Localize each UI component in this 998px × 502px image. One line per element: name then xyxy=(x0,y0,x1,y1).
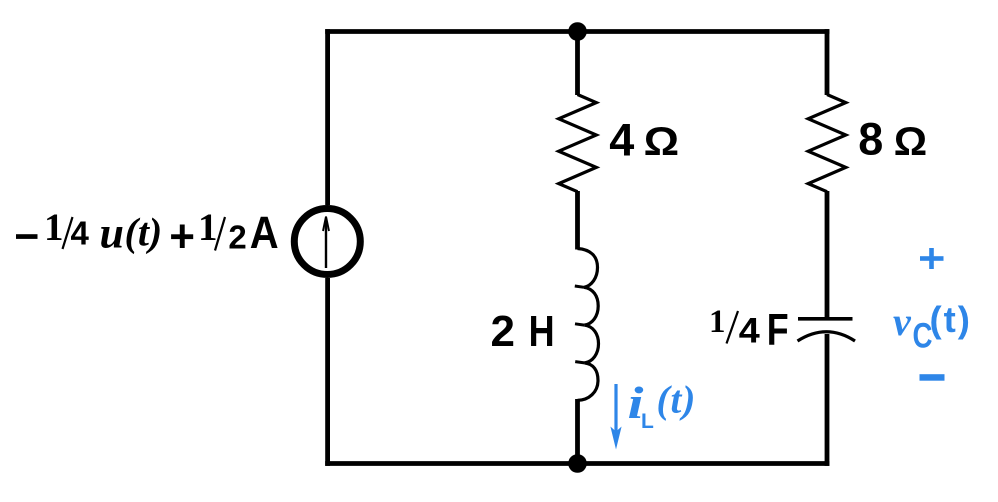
svg-text:(t): (t) xyxy=(125,210,163,255)
node bottom junction xyxy=(568,454,587,473)
svg-text:v: v xyxy=(893,299,912,344)
label voltage vC(t) minus sign xyxy=(920,374,945,381)
label voltage vC(t) text xyxy=(893,299,972,356)
svg-text:8: 8 xyxy=(858,114,883,165)
wire right branch lower (capacitor to bottom wire) xyxy=(825,334,830,466)
inductor coil cusp ticks xyxy=(575,286,585,363)
wire right branch between resistor and capacitor xyxy=(825,191,830,319)
wire middle branch between resistor and inductor xyxy=(575,191,580,250)
inductor L1 2H coil xyxy=(578,249,599,401)
wire left branch upper (top wire to current source) xyxy=(325,29,330,205)
label value 1/4 F xyxy=(709,304,789,355)
svg-text:A: A xyxy=(250,207,279,258)
svg-text:1: 1 xyxy=(198,206,218,249)
resistor R1 4ohm zigzag xyxy=(559,95,597,192)
wire right branch upper (top wire to resistor R2) xyxy=(825,29,830,95)
svg-text:Ω: Ω xyxy=(894,120,927,164)
wire left branch lower (current source to bottom wire) xyxy=(325,278,330,466)
svg-text:2: 2 xyxy=(491,307,515,356)
svg-text:1: 1 xyxy=(709,304,726,340)
label current iL(t) text xyxy=(628,377,697,433)
resistor R2 8ohm zigzag xyxy=(808,95,846,192)
svg-text:u: u xyxy=(100,209,124,258)
capacitor C1 top plate xyxy=(798,317,853,321)
svg-text:4: 4 xyxy=(609,115,634,166)
node top junction xyxy=(568,22,587,41)
svg-text:4: 4 xyxy=(71,215,90,252)
svg-text:1: 1 xyxy=(44,206,64,249)
label source value -1/4 u(t) + 1/2 A xyxy=(16,206,279,258)
svg-text:Ω: Ω xyxy=(644,120,680,164)
label current iL(t) blue arrow xyxy=(614,384,617,437)
svg-text:L: L xyxy=(641,410,654,433)
wire top horizontal xyxy=(325,29,829,34)
svg-text:H: H xyxy=(529,307,555,356)
svg-text:F: F xyxy=(767,306,789,355)
svg-text:2: 2 xyxy=(228,219,246,256)
wire middle branch upper xyxy=(575,32,580,96)
label voltage vC(t) plus sign xyxy=(920,248,944,269)
svg-text:(t): (t) xyxy=(657,379,697,422)
svg-text:4: 4 xyxy=(739,312,761,351)
svg-text:(t): (t) xyxy=(930,299,972,340)
current source I1 circle xyxy=(294,209,360,275)
wire bottom horizontal xyxy=(325,461,829,466)
current source I1 arrow xyxy=(325,219,327,268)
capacitor C1 bottom curved plate xyxy=(798,332,856,341)
wire middle branch lower xyxy=(575,399,580,464)
